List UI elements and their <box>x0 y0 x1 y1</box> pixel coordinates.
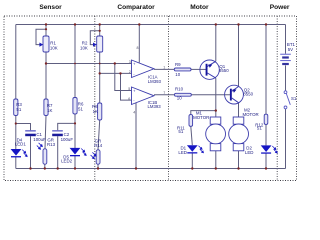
svg-text:LM393: LM393 <box>148 104 162 109</box>
svg-text:4: 4 <box>133 111 135 115</box>
svg-text:10: 10 <box>177 96 182 101</box>
svg-text:6: 6 <box>128 97 130 101</box>
svg-text:R9: R9 <box>175 62 181 67</box>
svg-text:8550: 8550 <box>219 68 229 73</box>
svg-text:Motor: Motor <box>190 4 209 11</box>
svg-text:MOTOR: MOTOR <box>193 115 209 120</box>
svg-text:2: 2 <box>129 70 131 74</box>
svg-text:R10: R10 <box>175 87 184 92</box>
svg-text:MOTOR: MOTOR <box>242 112 258 117</box>
svg-text:Comparator: Comparator <box>117 4 155 11</box>
svg-text:1K: 1K <box>47 108 52 113</box>
svg-text:8: 8 <box>137 46 139 50</box>
svg-text:100uF: 100uF <box>61 137 74 142</box>
svg-text:Power: Power <box>270 4 290 11</box>
svg-text:1K: 1K <box>93 109 98 114</box>
svg-text:51: 51 <box>178 129 183 134</box>
svg-text:R13: R13 <box>47 142 56 147</box>
svg-text:LED: LED <box>178 150 187 155</box>
svg-text:LED: LED <box>245 150 254 155</box>
svg-text:100uF: 100uF <box>33 137 46 142</box>
svg-text:LED1: LED1 <box>15 142 27 147</box>
svg-text:10K: 10K <box>50 46 58 51</box>
svg-text:8550: 8550 <box>243 92 253 97</box>
svg-text:51: 51 <box>257 126 262 131</box>
svg-text:1: 1 <box>163 66 165 70</box>
svg-text:5: 5 <box>128 87 130 91</box>
svg-text:Sensor: Sensor <box>39 4 62 11</box>
svg-text:R14: R14 <box>94 143 103 148</box>
svg-text:10: 10 <box>175 72 180 77</box>
svg-text:51: 51 <box>16 107 21 112</box>
svg-text:7: 7 <box>163 91 165 95</box>
svg-text:S1: S1 <box>291 96 297 101</box>
svg-text:5V: 5V <box>288 47 293 52</box>
svg-text:10K: 10K <box>80 46 88 51</box>
svg-text:LED2: LED2 <box>61 159 73 164</box>
svg-text:LM393: LM393 <box>148 79 162 84</box>
svg-text:51: 51 <box>78 107 83 112</box>
svg-text:3: 3 <box>129 60 131 64</box>
